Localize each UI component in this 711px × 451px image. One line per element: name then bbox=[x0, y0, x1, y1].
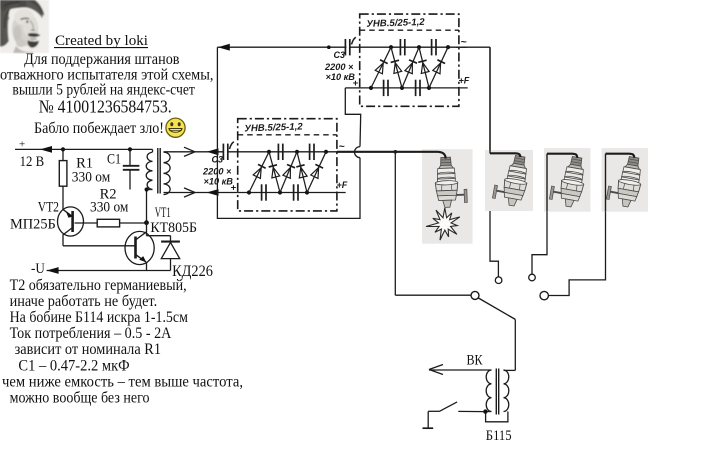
svg-text:330 ом: 330 ом bbox=[72, 169, 111, 185]
svg-text:+: + bbox=[231, 183, 237, 194]
svg-text:VT1: VT1 bbox=[155, 205, 171, 221]
svg-text:МП25Б: МП25Б bbox=[10, 216, 56, 232]
svg-text:×10 кВ: ×10 кВ bbox=[204, 177, 234, 187]
svg-text:330 ом: 330 ом bbox=[90, 199, 129, 215]
svg-text:Т2 обязательно германиевый,: Т2 обязательно германиевый, bbox=[10, 277, 187, 294]
svg-text:УНВ.5/25-1,2: УНВ.5/25-1,2 bbox=[244, 121, 303, 134]
svg-text:Бабло побеждает зло!: Бабло побеждает зло! bbox=[34, 120, 164, 137]
svg-text:зависит от номинала R1: зависит от номинала R1 bbox=[15, 341, 161, 358]
svg-text:Б115: Б115 bbox=[486, 428, 512, 444]
svg-text:ВК: ВК bbox=[467, 353, 483, 369]
svg-text:VT2: VT2 bbox=[38, 199, 59, 215]
svg-text:C1: C1 bbox=[107, 151, 121, 167]
svg-text:чем ниже емкость – тем выше ча: чем ниже емкость – тем выше частота, bbox=[2, 373, 243, 390]
svg-text:12 В: 12 В bbox=[20, 154, 44, 170]
svg-text:+: + bbox=[19, 139, 25, 151]
svg-text:КТ805Б: КТ805Б bbox=[150, 220, 197, 236]
svg-text:-U: -U bbox=[31, 261, 45, 277]
svg-text:иначе работать не будет.: иначе работать не будет. bbox=[10, 293, 158, 310]
svg-text:+F: +F bbox=[337, 180, 348, 190]
svg-text:С1 – 0.47-2.2 мкФ: С1 – 0.47-2.2 мкФ bbox=[18, 357, 129, 374]
svg-text:Created by loki: Created by loki bbox=[55, 33, 148, 49]
svg-text:№ 41001236584753.: № 41001236584753. bbox=[39, 97, 172, 117]
svg-text:КД226: КД226 bbox=[172, 263, 213, 280]
svg-text:можно вообще без него: можно вообще без него bbox=[10, 389, 150, 406]
svg-text:Ток потребления – 0.5 - 2А: Ток потребления – 0.5 - 2А bbox=[10, 325, 172, 342]
svg-text:На бобине Б114 искра 1-1.5см: На бобине Б114 искра 1-1.5см bbox=[10, 309, 188, 326]
